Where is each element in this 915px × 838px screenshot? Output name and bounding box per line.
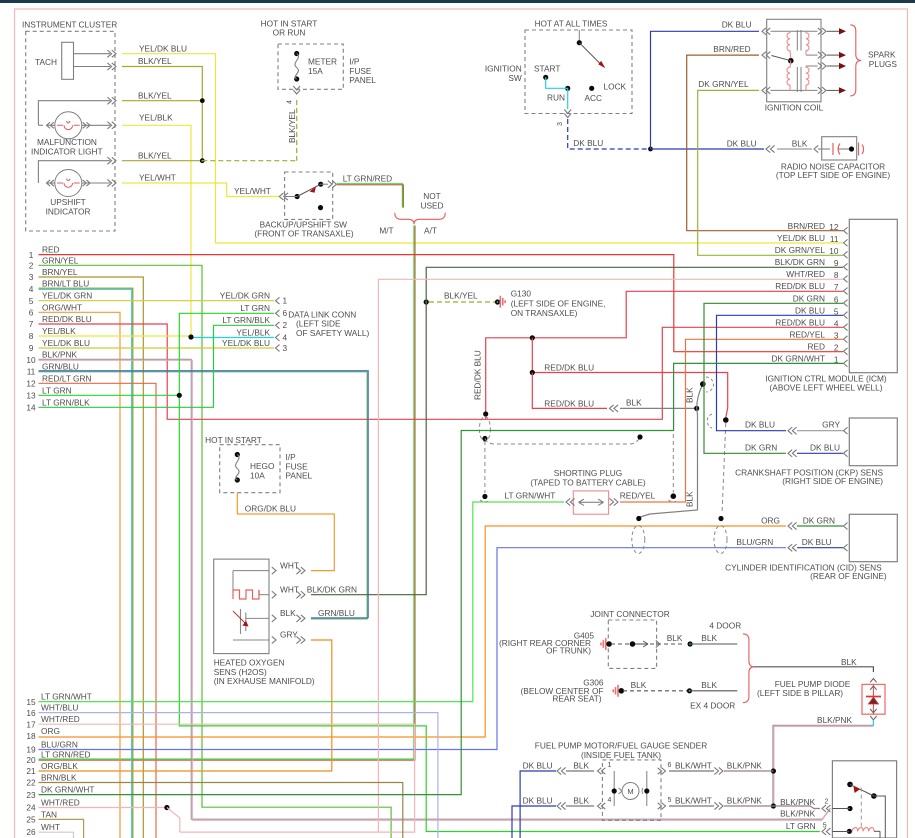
secondary windings red [806,31,809,55]
svg-text:RED/DK BLU: RED/DK BLU [544,362,594,372]
ground G405 [601,638,606,650]
svg-text:RED/YEL: RED/YEL [789,329,825,339]
svg-text:BLK/YEL: BLK/YEL [138,151,172,161]
wire 6 ORG/WHT [39,312,121,838]
wire 24 WHT/RED [39,807,167,809]
wire RED/DK BLU ICM pin 7 branch [486,291,843,419]
wire 25 TAN [39,819,84,838]
svg-text:9: 9 [29,343,34,353]
svg-text:ORG/BLK: ORG/BLK [41,761,78,771]
wire BLU/GRN wire19 to CID [39,548,787,750]
svg-text:BLU/GRN: BLU/GRN [41,740,78,750]
svg-text:RED/DK BLU: RED/DK BLU [42,314,92,324]
junction DK BLU [648,147,653,152]
ICM pin 1 DK GRN/WHT [844,360,848,367]
svg-text:7: 7 [29,319,34,329]
ICM pin 7 RED/DK BLU [844,288,848,295]
svg-text:TACH: TACH [35,57,57,67]
svg-text:(FRONT OF TRANSAXLE): (FRONT OF TRANSAXLE) [254,229,354,239]
svg-text:INSTRUMENT CLUSTER: INSTRUMENT CLUSTER [22,20,117,30]
svg-text:BLK: BLK [667,633,683,643]
svg-text:DK GRN/WHT: DK GRN/WHT [41,785,94,795]
svg-text:LT GRN/RED: LT GRN/RED [41,750,90,760]
svg-text:ACC: ACC [585,93,603,103]
svg-text:10: 10 [829,246,839,256]
svg-text:BRN/RED: BRN/RED [713,44,750,54]
ICM pin 9 BLK/DK GRN [844,263,848,270]
svg-text:13: 13 [26,391,36,401]
connector dot on dashed to shorting plug net [723,417,729,423]
svg-text:6: 6 [283,308,288,318]
svg-text:23: 23 [26,790,36,800]
svg-text:15: 15 [26,697,36,707]
junction RED/DK BLU at wire7 [483,411,488,416]
svg-text:LT GRN/BLK: LT GRN/BLK [222,315,270,325]
svg-text:DK GRN/YEL: DK GRN/YEL [775,245,826,255]
svg-text:GRN/BLU: GRN/BLU [42,361,79,371]
junction BLK/YEL [200,98,205,103]
svg-text:BRN/LT BLU: BRN/LT BLU [42,279,89,289]
svg-text:USED: USED [420,200,443,210]
svg-text:YEL/DK GRN: YEL/DK GRN [42,291,92,301]
svg-text:DK GRN/YEL: DK GRN/YEL [698,79,749,89]
svg-text:SW: SW [508,73,522,83]
svg-text:YEL/WHT: YEL/WHT [139,173,176,183]
CID sensor box [849,514,897,561]
svg-text:RED/LT GRN: RED/LT GRN [42,373,91,383]
svg-text:1: 1 [29,250,34,260]
svg-text:LT GRN/RED: LT GRN/RED [343,174,392,184]
svg-text:ON TRANSAXLE): ON TRANSAXLE) [511,308,578,318]
relay pin 5 LT GRN [822,828,826,835]
svg-text:(TOP LEFT SIDE OF ENGINE): (TOP LEFT SIDE OF ENGINE) [776,170,891,180]
svg-text:BRN/YEL: BRN/YEL [42,267,78,277]
CKP pin DK BLU [788,450,792,457]
wire 22 BRN/BLK [39,783,403,838]
svg-text:LT GRN: LT GRN [240,303,270,313]
svg-text:OF SAFETY WALL): OF SAFETY WALL) [296,328,370,338]
svg-text:WHT: WHT [280,560,299,570]
svg-text:EX 4 DOOR: EX 4 DOOR [690,701,735,711]
svg-text:DK GRN: DK GRN [793,293,825,303]
connector 3 below ignition switch [564,114,571,118]
dashed link RED-YEL connector [672,434,674,493]
CID pin DK GRN [788,522,792,529]
svg-text:INDICATOR: INDICATOR [46,206,91,216]
svg-text:1: 1 [283,296,288,306]
ICM pin 8 WHT/RED [844,276,848,283]
svg-text:GRN/YEL: GRN/YEL [42,255,79,265]
svg-text:BLK: BLK [701,633,717,643]
junction RED/DK BLU mid [530,335,535,340]
wire 7 RED/DK BLU to ICM pin 4 [39,324,844,419]
svg-text:PANEL: PANEL [286,471,313,481]
upshift indicator lamp [55,170,82,197]
svg-text:RUN: RUN [547,93,565,103]
svg-text:5: 5 [823,823,827,830]
BLK drain wire down to shield ellipse [640,408,698,517]
svg-text:BLK: BLK [280,608,296,618]
svg-text:4 DOOR: 4 DOOR [709,621,741,631]
svg-text:WHT: WHT [41,822,60,832]
svg-text:GRY: GRY [822,420,840,430]
ignition switch contacts [577,40,582,45]
HO2S heater element [233,570,269,572]
svg-text:ORG: ORG [761,516,780,526]
svg-text:1: 1 [608,762,612,769]
tachometer TACH [62,42,74,79]
cluster connector pins [112,50,116,57]
svg-text:GRN/BLU: GRN/BLU [318,608,355,618]
svg-text:BLK: BLK [792,138,808,148]
svg-text:OF TRUNK): OF TRUNK) [546,646,591,656]
coil center tap [788,58,794,64]
svg-text:RED: RED [42,245,60,255]
svg-text:DK BLU: DK BLU [745,420,775,430]
wire 9 YEL/DK BLU to DLC pin 3 [39,347,275,349]
svg-text:HOT IN START: HOT IN START [205,435,262,445]
radio noise capacitor [822,137,857,160]
svg-text:4: 4 [608,797,612,804]
svg-text:BLK/YEL: BLK/YEL [444,291,478,301]
svg-text:BRN/BLK: BRN/BLK [41,773,77,783]
HO2S pin BLK 3 to GRN/BLU [272,615,276,622]
junction YEL/BLK [188,334,193,339]
wire 4 BRN/LT BLU dual color [39,288,133,838]
svg-text:WHT/BLU: WHT/BLU [41,703,78,713]
svg-text:16: 16 [26,708,36,718]
wire BLK/DK GRN HO2S to ICM pin 9 [311,267,843,594]
svg-text:DK BLU: DK BLU [802,537,832,547]
svg-text:10A: 10A [250,470,265,480]
wire DK BLU ICM pin 5 to CKP [717,315,844,430]
svg-text:A/T: A/T [424,225,437,235]
svg-text:8: 8 [834,270,839,280]
svg-text:24: 24 [26,803,36,813]
fuse HEGO 10A [235,452,240,457]
svg-text:2: 2 [825,799,829,806]
fuel pump internal motor [613,771,615,806]
ICM pin 5 DK BLU [844,312,848,319]
svg-text:6: 6 [668,762,672,769]
dashed drain down to G-dot [484,441,486,493]
ICM pin 3 RED/YEL [844,336,848,343]
page top bar [0,0,915,3]
svg-text:M/T: M/T [379,225,393,235]
ICM pin 12 BRN/RED [844,227,848,234]
backup/upshift switch box [285,172,333,219]
spark plug output arrows [827,30,839,32]
svg-text:ORG: ORG [41,726,60,736]
svg-text:BLK/DK GRN: BLK/DK GRN [775,257,825,267]
heated oxygen sensor box [214,559,269,654]
svg-text:YEL/BLK: YEL/BLK [42,326,76,336]
ICM pin 6 DK GRN [844,300,848,307]
svg-text:BLK/PNK: BLK/PNK [727,796,763,806]
svg-text:(INSIDE FUEL TANK): (INSIDE FUEL TANK) [581,750,661,760]
svg-text:BLK/WHT: BLK/WHT [675,796,712,806]
svg-text:DK GRN: DK GRN [745,442,777,452]
wire 11 GRN/BLU to HO2S pin 3 dual color [39,371,369,618]
svg-text:LT GRN/BLK: LT GRN/BLK [42,397,90,407]
ICM pin 10 DK GRN/YEL [844,251,848,258]
svg-text:3: 3 [283,343,288,353]
wire ORG wire18 to CID [39,526,787,737]
svg-text:YEL/DK BLU: YEL/DK BLU [777,233,825,243]
svg-text:BLK/WHT: BLK/WHT [675,761,712,771]
HO2S sensor element [241,609,246,634]
BLK wire up-curve to connector dot [697,384,703,408]
shorting plug box [573,491,608,514]
wire 23 DK GRN/WHT to ICM pin 1 [39,363,844,794]
wire 26 WHT [39,832,74,838]
ground G306 [613,685,618,697]
svg-text:START: START [534,63,560,73]
svg-text:RED/DK BLU: RED/DK BLU [473,350,483,400]
svg-text:BLK: BLK [841,657,857,667]
transformer core lines [796,30,798,51]
svg-text:8: 8 [29,331,34,341]
cyan wire START to RUN to output [546,77,568,88]
svg-text:YEL/DK GRN: YEL/DK GRN [220,291,270,301]
HO2S pin WHT 1 [272,567,276,574]
svg-text:9: 9 [834,258,839,268]
svg-text:19: 19 [26,745,36,755]
wire 5 YEL/DK GRN to DLC pin 1 [39,300,275,302]
LT GRN branch down to relay pin 5 [179,395,820,831]
svg-text:PLUGS: PLUGS [869,59,898,69]
svg-text:BLK/YEL: BLK/YEL [138,56,172,66]
svg-text:TAN: TAN [41,809,57,819]
svg-text:BLK: BLK [701,680,717,690]
svg-text:20: 20 [26,755,36,765]
relay coil [852,828,874,832]
shield ellipse at shorting plug [479,417,490,442]
svg-text:WHT: WHT [280,584,299,594]
svg-text:RED/DK BLU: RED/DK BLU [775,317,825,327]
svg-text:DK BLU: DK BLU [523,796,553,806]
svg-text:BLK/DK GRN: BLK/DK GRN [307,584,357,594]
ignition control module ICM connector [849,219,897,372]
svg-text:RED/DK BLU: RED/DK BLU [544,398,594,408]
dashed shield link down to CID shield [722,423,726,514]
fuse METER 15A [294,51,299,56]
svg-text:BLK/PNK: BLK/PNK [817,715,853,725]
svg-text:BLK: BLK [573,761,589,771]
data link connector pins [276,297,280,304]
wire 10 BLK/PNK to fuel pump relay pin 2 dual color [39,359,831,819]
wire WHT/RED ICM pin 8 riser [378,279,843,832]
svg-text:ORG/WHT: ORG/WHT [42,302,82,312]
svg-text:4: 4 [29,284,34,294]
wire 13 LT GRN to DLC pin 6 and fuel pump relay [39,394,180,396]
CKP sensor box [849,418,897,466]
svg-text:HOT AT ALL TIMES: HOT AT ALL TIMES [535,19,608,29]
fuse output connector 4 [293,90,300,94]
wire 14 LT GRN/BLK to DLC pin 2 [39,325,275,407]
spark plugs brace [850,25,861,96]
ICM pin 4 RED/DK BLU [844,324,848,331]
svg-text:12: 12 [829,222,839,232]
svg-text:21: 21 [26,766,36,776]
svg-text:4: 4 [283,332,288,342]
svg-text:G130: G130 [511,289,532,299]
svg-text:18: 18 [26,731,36,741]
svg-text:GRY: GRY [280,630,298,640]
malfunction indicator light lamp [55,112,82,139]
svg-text:LT GRN: LT GRN [42,385,72,395]
svg-text:DK BLU: DK BLU [722,20,752,30]
svg-text:REAR SEAT): REAR SEAT) [552,693,601,703]
svg-text:4: 4 [287,100,294,104]
svg-text:(TAPED TO BATTERY CABLE): (TAPED TO BATTERY CABLE) [530,477,646,487]
svg-text:RED: RED [807,342,825,352]
svg-text:RED/DK BLU: RED/DK BLU [775,281,825,291]
fuel pump relay box [832,761,896,838]
ignition coil box [767,19,821,102]
fuel pump pins [598,768,602,774]
svg-text:6: 6 [29,308,34,318]
switch contacts [295,194,300,199]
svg-text:M: M [627,787,633,796]
svg-text:YEL/DK BLU: YEL/DK BLU [42,338,90,348]
svg-text:BLK/PNK: BLK/PNK [42,350,78,360]
svg-text:(REAR OF ENGINE): (REAR OF ENGINE) [810,571,887,581]
svg-text:5: 5 [29,296,34,306]
wire 8 YEL/BLK to DLC pin 4 [39,335,192,337]
svg-text:BRN/RED: BRN/RED [788,221,825,231]
wire DK GRN ICM pin 6 to CKP [704,303,843,453]
svg-text:LT GRN/WHT: LT GRN/WHT [41,692,92,702]
svg-text:YEL/BLK: YEL/BLK [139,113,173,123]
svg-text:17: 17 [26,719,36,729]
svg-text:DK BLU: DK BLU [795,305,825,315]
wire 17 WHT/RED [39,724,415,832]
CID pin DK BLU [788,544,792,551]
svg-text:15A: 15A [308,66,323,76]
svg-text:DK BLU: DK BLU [810,442,840,452]
wire 2 GRN/YEL [39,265,392,838]
svg-text:LOCK: LOCK [604,82,627,92]
svg-text:BLK/PNK: BLK/PNK [727,761,763,771]
dashed BLK/YEL wire from fuse 4 [202,160,296,162]
svg-text:JOINT CONNECTOR: JOINT CONNECTOR [590,609,669,619]
svg-text:3: 3 [557,122,564,126]
svg-text:(RIGHT SIDE OF ENGINE): (RIGHT SIDE OF ENGINE) [782,476,883,486]
svg-text:BLK: BLK [631,680,647,690]
svg-text:SPARK: SPARK [868,50,896,60]
junction LT GRN [177,393,182,398]
svg-text:22: 22 [26,778,36,788]
relay pin 2 [822,805,826,812]
svg-text:BLK/PNK: BLK/PNK [780,809,816,819]
svg-text:2: 2 [834,343,839,353]
relay switch [847,782,853,788]
HO2S pin GRY 4 to ORG/BLK wire 21 [272,636,276,643]
shield ellipses over CID pair [632,526,645,554]
svg-text:BLK/YEL: BLK/YEL [287,109,297,143]
svg-text:IGNITION COIL: IGNITION COIL [765,103,824,113]
primary windings red [787,31,791,58]
svg-text:3: 3 [29,272,34,282]
brace 4door/ex4door [743,634,754,703]
svg-text:WHT/RED: WHT/RED [41,798,80,808]
svg-text:LT GRN/WHT: LT GRN/WHT [505,491,556,501]
svg-text:2: 2 [29,261,34,271]
svg-text:BLK: BLK [626,398,642,408]
svg-text:WHT/RED: WHT/RED [41,714,80,724]
svg-text:YEL/WHT: YEL/WHT [234,186,271,196]
svg-text:DK BLU: DK BLU [727,138,757,148]
svg-text:DK BLU: DK BLU [523,761,553,771]
coil pins and internal wiring [762,28,766,35]
svg-text:26: 26 [26,827,36,837]
svg-text:RED/YEL: RED/YEL [620,491,656,501]
wire 3 BRN/YEL [39,277,144,838]
svg-text:BLK/YEL: BLK/YEL [138,91,172,101]
svg-text:LT GRN: LT GRN [786,821,816,831]
svg-text:DK GRN/WHT: DK GRN/WHT [772,354,825,364]
ICM pin 2 RED [844,348,848,355]
svg-text:(IN EXHAUSE MANIFOLD): (IN EXHAUSE MANIFOLD) [214,676,315,686]
svg-text:2: 2 [283,320,288,330]
CKP pin GRY [788,427,792,434]
dashed shield drain to right [485,438,640,445]
instrument cluster box [26,31,115,231]
svg-text:OR RUN: OR RUN [273,28,306,38]
svg-text:14: 14 [26,403,36,413]
wire BLK splice to shield [620,407,697,409]
svg-text:5: 5 [668,797,672,804]
brace M/T A/T [395,213,445,225]
ground G130 dashed BLK/YEL [424,299,429,304]
svg-text:YEL/DK BLU: YEL/DK BLU [139,44,187,54]
svg-text:DK GRN: DK GRN [803,516,835,526]
svg-text:DK BLU: DK BLU [573,138,603,148]
svg-text:YEL/DK BLU: YEL/DK BLU [222,338,270,348]
svg-text:ORG/DK BLU: ORG/DK BLU [245,503,296,513]
svg-text:12: 12 [26,379,36,389]
svg-text:WHT/RED: WHT/RED [786,269,825,279]
junction BLK/YEL to fuse feed [200,158,205,163]
HO2S pin WHT 2 to BLK/DK GRN [272,591,276,598]
svg-text:INDICATOR LIGHT: INDICATOR LIGHT [31,147,103,157]
svg-text:(ABOVE LEFT WHEEL WELL): (ABOVE LEFT WHEEL WELL) [770,382,883,392]
svg-text:25: 25 [26,815,36,825]
upshift wiring to connector [38,161,110,183]
wire 16 WHT/BLU [39,713,438,838]
svg-text:YEL/BLK: YEL/BLK [236,327,270,337]
svg-text:(LEFT SIDE B PILLAR): (LEFT SIDE B PILLAR) [757,688,843,698]
MIL wiring to connector [38,101,110,126]
svg-text:BLU/GRN: BLU/GRN [736,537,773,547]
svg-text:11: 11 [27,367,36,377]
svg-text:BLK: BLK [573,796,589,806]
wire LT GRN/RED A/T branch down to wire 20 [39,226,415,760]
ICM pin 11 YEL/DK BLU [844,239,848,246]
wire 12 RED/LT GRN [39,383,157,838]
svg-text:10: 10 [26,355,36,365]
wire 1 RED to ICM pin 2 [39,255,844,352]
wire RED/YEL shorting plug to ICM pin 3 [614,498,618,505]
svg-text:PANEL: PANEL [349,75,376,85]
svg-text:11: 11 [830,234,839,244]
